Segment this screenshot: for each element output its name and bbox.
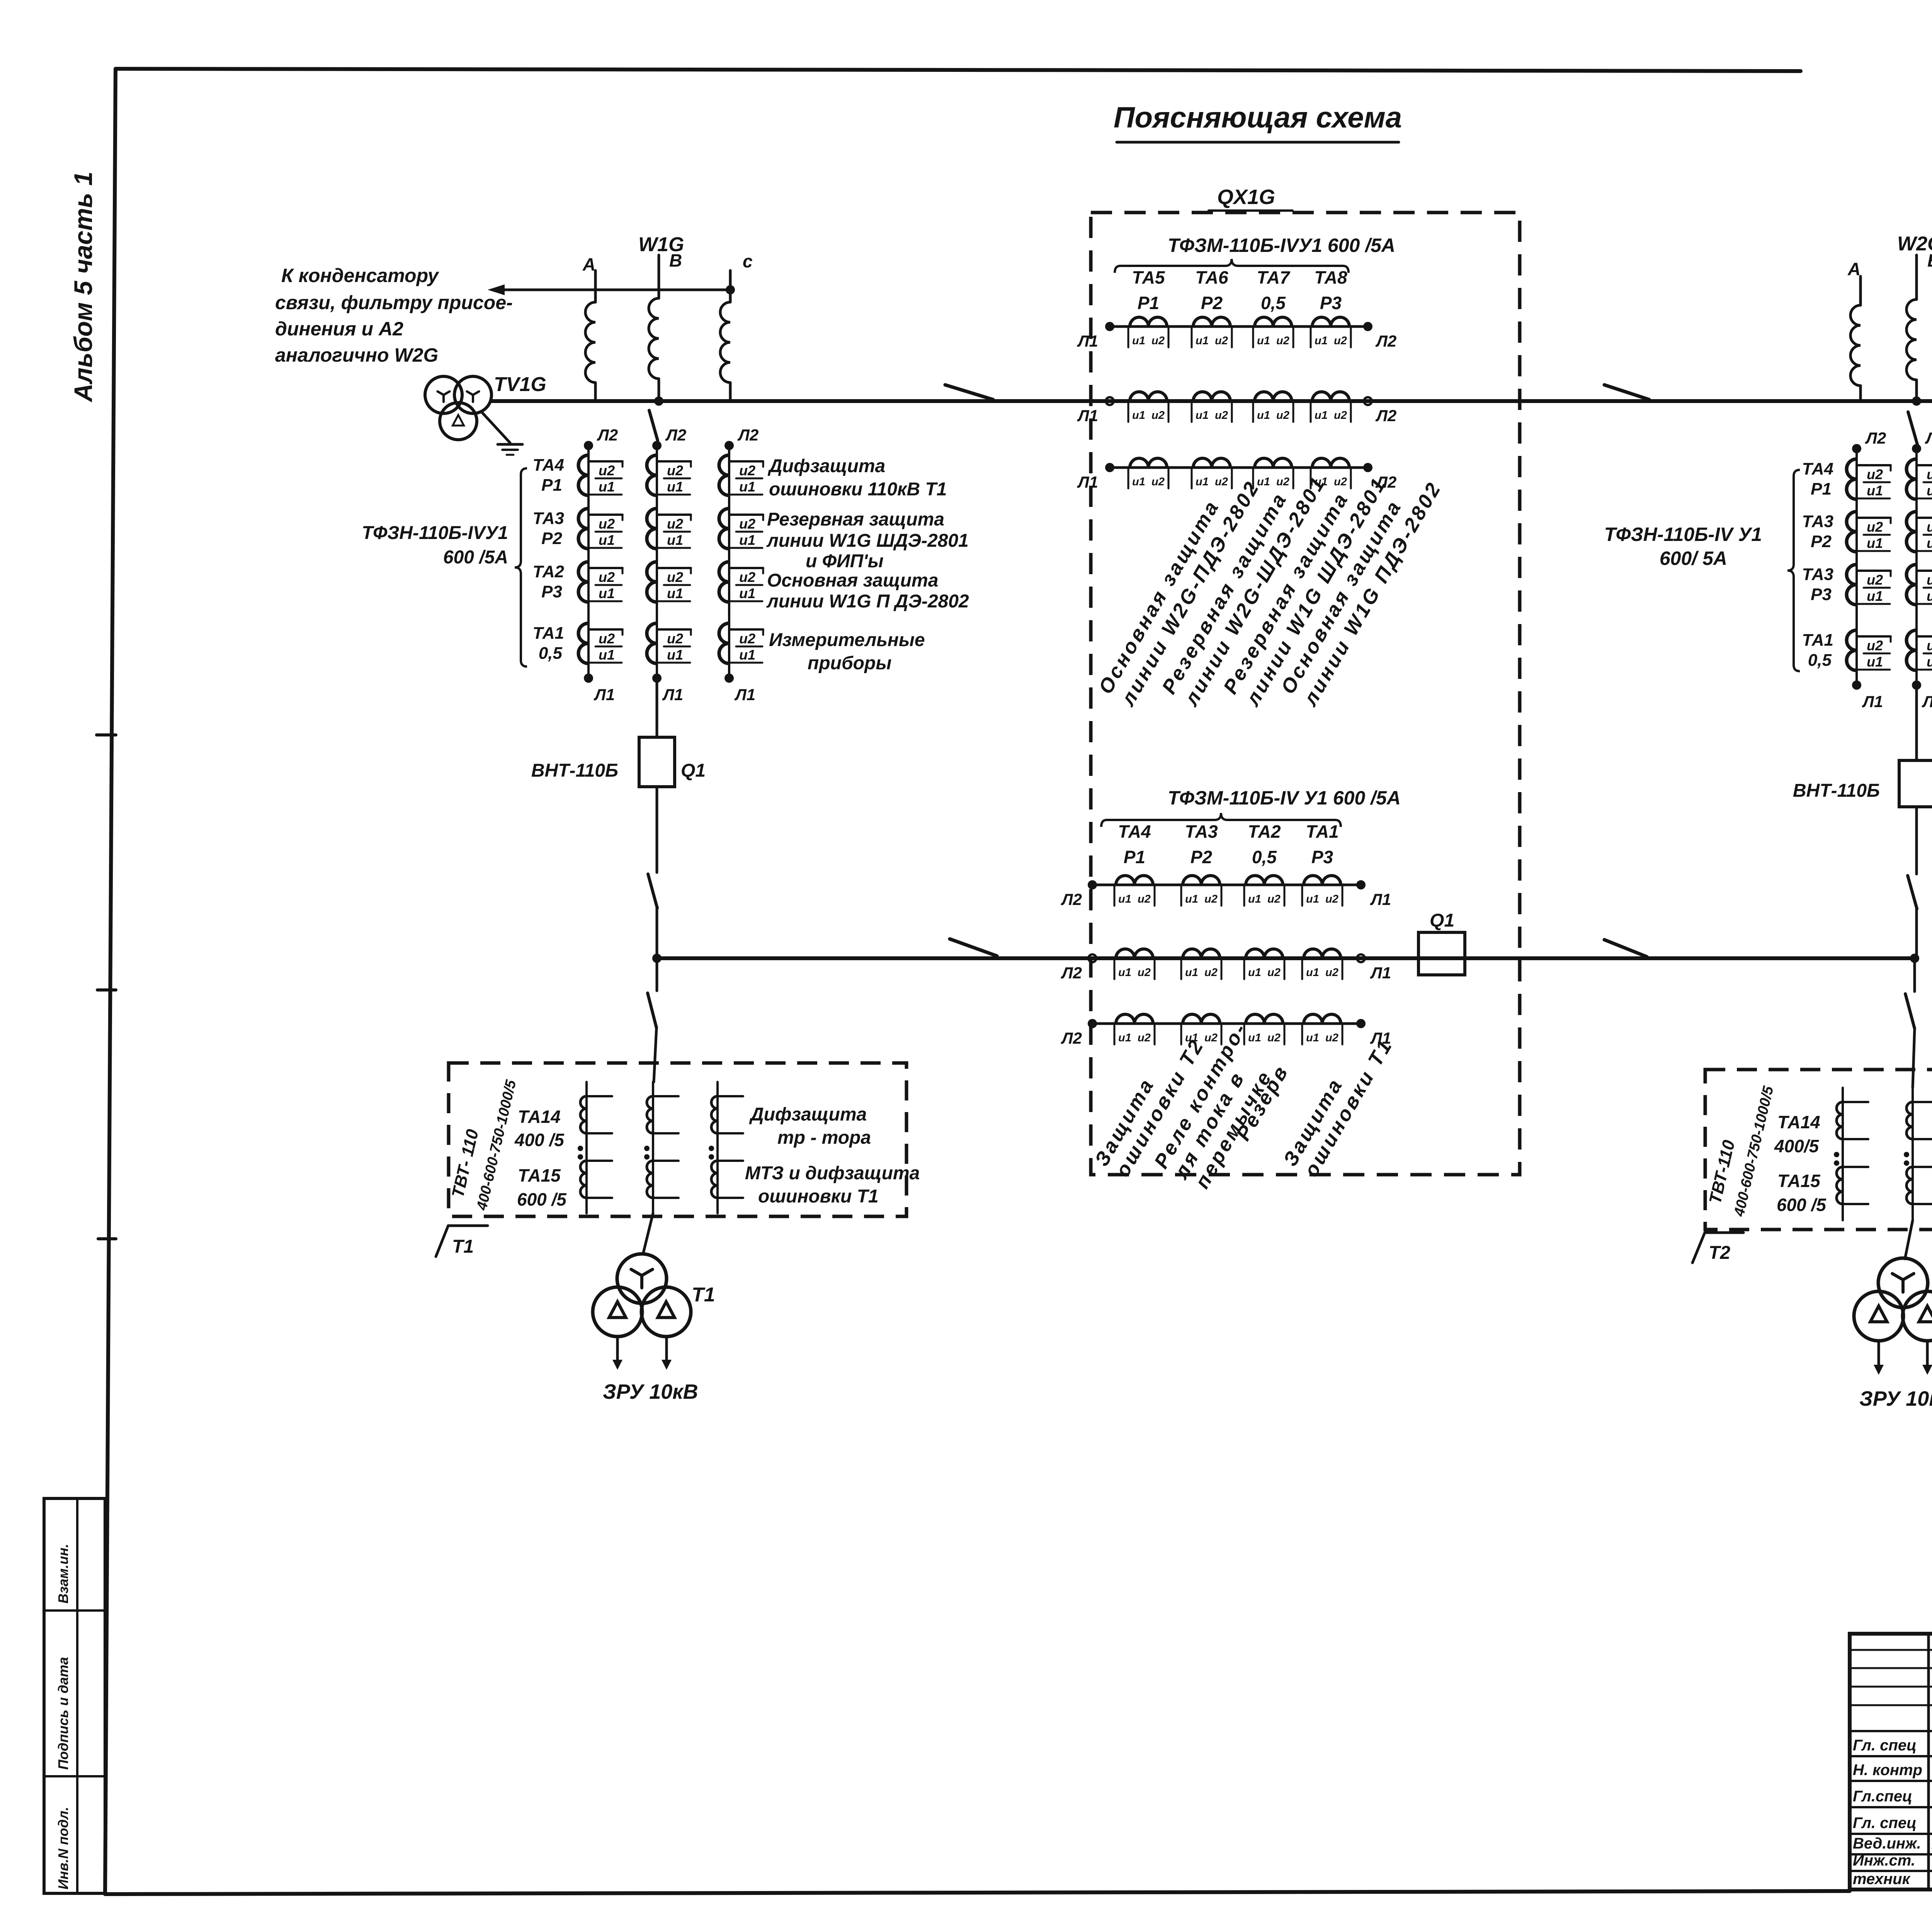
svg-text:и2: и2 [599,463,615,478]
svg-text:и1: и1 [1248,893,1261,905]
svg-text:и1: и1 [1118,966,1131,979]
svg-text:и1: и1 [1118,1032,1131,1044]
svg-text:Р3: Р3 [1811,585,1832,604]
disconnector below bus2 right [1905,994,1915,1029]
svg-text:ТА5: ТА5 [1132,267,1165,287]
svg-text:линии W1G П ДЭ-2802: линии W1G П ДЭ-2802 [766,591,969,612]
svg-text:и1: и1 [1196,409,1209,422]
svg-text:и2: и2 [1334,335,1347,347]
note to coupling capacitor [275,265,513,366]
disconnector above bus2 right [1908,876,1917,909]
T2 output arrows [1874,1342,1932,1375]
svg-text:и1: и1 [667,647,683,663]
reactor coil A [585,302,595,383]
svg-text:Взам.ин.: Взам.ин. [55,1544,71,1604]
svg-text:и2: и2 [1867,519,1883,535]
svg-text:Q1: Q1 [1430,910,1454,931]
svg-text:с: с [743,251,753,271]
svg-text:и2: и2 [1138,966,1151,979]
svg-text:и1: и1 [599,647,615,663]
svg-text:и2: и2 [599,516,615,532]
svg-text:и2: и2 [1215,335,1228,347]
CT windings TA14 TA15 T1 [578,1082,743,1213]
svg-text:ТА3: ТА3 [1802,565,1833,584]
svg-text:тр - тора: тр - тора [777,1128,871,1148]
svg-text:ВНТ-110Б: ВНТ-110Б [531,760,618,781]
svg-text:0,5: 0,5 [1261,293,1286,313]
svg-text:ТФЗМ-110Б-ƖV У1 600 /5А: ТФЗМ-110Б-ƖV У1 600 /5А [1168,787,1401,809]
svg-text:связи, фильтру присое-: связи, фильтру присое- [275,292,513,313]
label W2G [1897,233,1932,255]
svg-text:ТА1: ТА1 [533,624,564,643]
svg-text:0,5: 0,5 [1808,651,1832,670]
svg-text:и1: и1 [1927,654,1932,670]
svg-text:Т1: Т1 [452,1236,474,1257]
svg-text:Р1: Р1 [1124,847,1145,867]
label ZRU 10kV T1 [603,1380,698,1403]
wire to bus2 right [1915,909,1918,958]
wire to bus2 left [656,908,658,958]
svg-text:ТА15: ТА15 [518,1165,561,1185]
svg-text:QX1G: QX1G [1217,185,1275,209]
svg-text:и1: и1 [1196,476,1209,488]
svg-text:Измерительные: Измерительные [769,630,925,650]
label reserve protection W1G [766,509,969,571]
svg-text:и2: и2 [1267,1032,1281,1044]
svg-text:Л2: Л2 [1061,890,1082,908]
label TVT-110 T2 [1706,1084,1777,1218]
label TFZN-110B right [1604,524,1762,569]
svg-text:Л1: Л1 [1922,692,1932,711]
phase label B [669,250,682,270]
svg-text:и2: и2 [1276,409,1289,422]
label main protection W1G [766,570,969,612]
svg-text:и2: и2 [739,631,755,646]
svg-text:ЗРУ 10кВ: ЗРУ 10кВ [1859,1387,1932,1410]
label TA15 T1 [517,1165,567,1209]
wire L1 to breaker right [1915,685,1918,760]
svg-text:600/ 5А: 600/ 5А [1660,548,1727,569]
svg-text:Р2: Р2 [541,529,562,548]
title block names [1853,1736,1932,1888]
svg-text:Р3: Р3 [1311,847,1333,867]
svg-text:и2: и2 [667,463,683,478]
svg-text:и2: и2 [1215,409,1228,422]
svg-text:и1: и1 [1867,588,1883,604]
svg-text:Гл. спец: Гл. спец [1853,1737,1917,1754]
svg-text:Основная защита: Основная защита [767,570,938,591]
phase label A [582,254,595,274]
node bus2 left [652,954,662,963]
label rotated lower Защита ошиновки Т2 [1090,1034,1209,1181]
svg-text:600 /5: 600 /5 [1777,1195,1827,1215]
phase wire A W2G [1859,276,1862,305]
node L1 left group [584,673,755,704]
svg-text:и2: и2 [1325,966,1338,979]
svg-text:ТА2: ТА2 [533,562,565,581]
phase wire A [594,270,597,302]
svg-text:и2: и2 [1204,893,1218,905]
ground TV1G [498,444,522,455]
svg-text:и1: и1 [1185,966,1198,979]
svg-text:ТА4: ТА4 [1118,821,1151,842]
phase wire B [658,255,660,298]
svg-text:К конденсатору: К конденсатору [281,265,439,286]
CT row 3 lower [1061,1014,1391,1047]
svg-text:и1: и1 [1132,335,1145,347]
breaker Q1 tie [1418,910,1465,975]
svg-text:А: А [582,254,595,274]
reactor coil C [720,302,730,383]
label rotated Основная защита 2972 [1094,476,1264,710]
svg-text:400/5: 400/5 [1774,1136,1820,1156]
svg-text:Л1: Л1 [662,685,683,704]
svg-text:Т1: Т1 [692,1284,715,1306]
bus lower [657,956,1913,960]
svg-text:и2: и2 [1151,409,1165,422]
svg-text:и1: и1 [739,532,755,548]
album note [69,172,97,403]
labels TA5-TA8 [1132,267,1347,313]
T1 output arrows [612,1337,672,1370]
T2 CT dashed box [1705,1070,1932,1230]
svg-text:аналогично W2G: аналогично W2G [275,344,438,366]
svg-text:и1: и1 [1257,335,1270,347]
svg-text:В: В [1927,250,1932,270]
svg-text:Л2: Л2 [1061,1029,1082,1047]
svg-text:и2: и2 [1215,476,1228,488]
CT row 1 upper [1077,317,1396,350]
svg-text:ТА3: ТА3 [1185,821,1218,842]
svg-text:и2: и2 [1927,572,1932,588]
svg-text:и2: и2 [1867,572,1883,588]
svg-text:W2G: W2G [1897,233,1932,255]
disconnector bus2 left [950,939,997,956]
svg-text:и1: и1 [1927,483,1932,498]
svg-text:и2: и2 [599,631,615,646]
svg-text:и1: и1 [1867,483,1883,498]
label MTZ T1 [745,1163,920,1207]
svg-text:и1: и1 [1315,335,1328,347]
svg-text:Q1: Q1 [681,760,706,781]
reactor coil B [649,298,659,379]
flag T1 [436,1226,488,1257]
phase label C [743,251,753,271]
svg-text:и1: и1 [599,585,615,601]
svg-text:Р3: Р3 [1320,293,1342,313]
svg-text:Т2: Т2 [1709,1243,1730,1263]
current transformer ТА4 left [533,455,763,495]
svg-text:ошиновки Т1: ошиновки Т1 [758,1186,879,1207]
wire below breaker left [656,787,658,872]
svg-text:ошиновки 110кВ Т1: ошиновки 110кВ Т1 [769,479,947,500]
label ZRU 10kV T2 [1859,1387,1932,1410]
svg-text:и1: и1 [667,585,683,601]
disconnector bus1 left [945,385,993,400]
disconnector bus1 right [1604,385,1649,400]
current transformer ТА1 right 1683 [1802,630,1932,670]
border frame bottom [105,1891,1850,1894]
svg-text:и2: и2 [739,569,755,585]
svg-text:ТА14: ТА14 [1777,1112,1820,1132]
svg-text:и2: и2 [1138,893,1151,905]
brace TFZN left [515,468,527,667]
wire to T2 box [1913,1029,1915,1088]
svg-text:В: В [669,250,682,270]
current transformer ТА2 left [533,562,763,602]
svg-text:Р3: Р3 [541,582,562,601]
svg-text:Р1: Р1 [1138,293,1159,313]
wire C to bus [729,383,732,401]
svg-text:Л2: Л2 [1375,406,1396,425]
svg-text:TV1G: TV1G [494,373,546,396]
svg-text:и1: и1 [1248,1032,1261,1044]
label W1G [638,233,684,256]
brace TFZM upper [1115,259,1349,273]
border tick marks [97,735,116,1239]
disconnector below bus2 left [648,993,656,1028]
label rotated Резервная защита 3136 [1158,472,1330,710]
CT column wires left group [588,446,729,678]
svg-text:600 /5: 600 /5 [517,1189,567,1209]
svg-text:и1: и1 [1118,893,1131,905]
svg-text:ТА6: ТА6 [1195,267,1228,287]
CT row 2 lower on bus [1061,949,1391,982]
wire A to bus W2G [1859,386,1862,401]
svg-text:линии W1G ШДЭ-2801: линии W1G ШДЭ-2801 [766,531,969,551]
svg-text:Л2: Л2 [1865,429,1886,447]
wire B to bus W2G [1915,380,1918,401]
label measuring instruments left [769,630,925,673]
svg-text:Р1: Р1 [1811,480,1832,498]
svg-text:Р1: Р1 [541,476,562,495]
svg-text:Л1: Л1 [1077,332,1098,350]
disconnector above bus2 left [648,874,657,908]
svg-text:и1: и1 [1196,335,1209,347]
svg-text:ТА3: ТА3 [533,509,564,528]
current transformer ТА4 right 1240 [1802,459,1932,499]
CT windings TA14 TA15 T2 [1834,1088,1932,1220]
svg-text:Н. контр: Н. контр [1853,1762,1922,1779]
disconnector below bus W2G [1908,412,1917,444]
svg-text:и1: и1 [1132,476,1145,488]
arrow wire to W2G note [488,284,735,295]
svg-text:и2: и2 [1138,1032,1151,1044]
current transformer ТА3 right 1376 [1802,512,1932,552]
svg-text:и2: и2 [599,569,615,585]
svg-text:и2: и2 [667,569,683,585]
svg-text:Альбом 5 часть 1: Альбом 5 часть 1 [69,172,97,403]
svg-text:и1: и1 [599,532,615,548]
breaker Q1 left [531,737,706,787]
svg-text:и2: и2 [667,516,683,532]
wire T2 box to transformer [1905,1220,1913,1259]
label rotated lower Защита ошиновки Т1 [1279,1034,1397,1181]
transformer T1 [593,1254,715,1337]
label TFZM lower [1168,787,1401,809]
wire below bus2 right [1913,958,1916,992]
svg-text:и1: и1 [1927,535,1932,551]
label TVT-110 T1 [448,1078,519,1212]
voltage transformer TV1G [425,373,546,440]
border frame top [116,69,1801,71]
svg-text:400 /5: 400 /5 [514,1130,565,1150]
labels TA4-TA1 lower [1118,821,1338,867]
drawing title [1114,101,1402,142]
svg-text:и1: и1 [1306,893,1319,905]
svg-text:техник: техник [1853,1871,1911,1888]
svg-text:и1: и1 [1867,654,1883,670]
svg-text:ТА15: ТА15 [1777,1171,1821,1191]
svg-text:0,5: 0,5 [1252,847,1277,867]
svg-text:ТА8: ТА8 [1314,267,1347,287]
border frame left [105,69,116,1894]
svg-text:и2: и2 [1151,335,1165,347]
node B2 [1912,396,1921,406]
svg-text:и2: и2 [1927,466,1932,482]
svg-text:и2: и2 [1204,966,1218,979]
svg-text:ТА3: ТА3 [1802,512,1833,531]
svg-text:0,5: 0,5 [539,644,563,663]
svg-text:А: А [1847,259,1861,279]
label QX1G [1209,185,1293,211]
svg-text:и2: и2 [1267,966,1281,979]
disconnector bus2 right [1604,940,1647,957]
svg-text:и2: и2 [667,631,683,646]
svg-text:и2: и2 [1334,476,1347,488]
svg-text:и1: и1 [599,479,615,495]
svg-text:Поясняющая схема: Поясняющая схема [1114,101,1402,134]
current transformer ТА1 left [533,623,763,663]
svg-text:Л2: Л2 [1375,332,1396,350]
cabinet QX1G dashed box [1091,213,1520,1175]
svg-text:Вед.инж.: Вед.инж. [1853,1835,1921,1852]
node L1 right group [1852,680,1932,711]
label rotated lower Резерв [1232,1061,1293,1145]
svg-text:ТФЗМ-110Б-ƖVУ1 600 /5А: ТФЗМ-110Б-ƖVУ1 600 /5А [1168,235,1395,256]
svg-text:ЗРУ 10кВ: ЗРУ 10кВ [603,1380,698,1403]
svg-text:ТФЗН-110Б-ƖV У1: ТФЗН-110Б-ƖV У1 [1604,524,1762,545]
T1 CT dashed box [449,1063,906,1216]
disconnector below bus W1G [649,410,658,440]
label TA14 T1 [514,1107,565,1150]
wire B to bus [658,379,660,401]
svg-text:Л1: Л1 [594,685,615,704]
wire A to bus [594,383,597,401]
svg-text:и1: и1 [1248,966,1261,979]
transformer T2 [1854,1258,1932,1341]
svg-text:и1: и1 [1315,409,1328,422]
svg-text:ТА7: ТА7 [1257,267,1291,287]
wire L1 to breaker left [656,678,658,737]
svg-text:и2: и2 [1927,519,1932,535]
svg-text:МТЗ и дифзащита: МТЗ и дифзащита [745,1163,920,1184]
svg-text:Л2: Л2 [665,426,686,444]
brace TFZM lower [1101,813,1341,827]
label diff protection T1 [767,456,947,500]
label rotated Резервная защита 3295 [1219,473,1391,711]
label rotated lower Реле контроля тока в перемычке [1150,1018,1277,1192]
left stamp column [44,1498,105,1893]
svg-text:Резервная защита: Резервная защита [767,509,944,530]
svg-text:и2: и2 [1267,893,1281,905]
svg-text:Л1: Л1 [734,685,755,704]
CT row 1 lower [1061,876,1391,908]
phase label B2 [1927,250,1932,270]
node B1 [654,396,663,406]
phase wire C [729,270,732,302]
svg-text:и1: и1 [739,647,755,663]
svg-text:и1: и1 [1927,588,1932,604]
svg-text:Р2: Р2 [1811,532,1832,551]
label TFZN-110B left [362,523,508,568]
svg-text:и2: и2 [1204,1032,1218,1044]
svg-text:и2: и2 [1334,409,1347,422]
svg-text:Л1: Л1 [1370,964,1391,982]
wire to T1 box [654,1028,656,1082]
svg-text:и2: и2 [1151,476,1165,488]
svg-text:и1: и1 [1306,966,1319,979]
svg-text:ВНТ-110Б: ВНТ-110Б [1793,781,1880,801]
bus W1G [492,399,1932,403]
svg-text:Л1: Л1 [1077,473,1098,491]
label diff protection transformer T1 [749,1104,871,1148]
svg-text:Л2: Л2 [737,426,759,444]
svg-text:Л2: Л2 [597,426,618,444]
svg-text:и1: и1 [739,585,755,601]
svg-text:Л2: Л2 [1061,964,1082,982]
current transformer ТА3 left [533,509,763,549]
svg-text:ТА4: ТА4 [1802,459,1833,478]
svg-text:Гл.спец: Гл.спец [1853,1788,1912,1805]
title block left columns [1850,1634,1932,1889]
svg-text:ТА4: ТА4 [533,456,564,474]
svg-text:приборы: приборы [808,653,891,673]
svg-text:и1: и1 [1132,409,1145,422]
svg-text:и1: и1 [667,479,683,495]
svg-text:и1: и1 [667,532,683,548]
svg-text:и2: и2 [1867,638,1883,653]
svg-text:и2: и2 [1927,638,1932,653]
title block outline [1850,1634,1932,1889]
svg-text:ТА1: ТА1 [1802,631,1833,650]
svg-text:Р2: Р2 [1190,847,1213,867]
phase label A2 [1847,259,1861,279]
phase wire B W2G [1915,255,1918,299]
svg-text:и1: и1 [739,479,755,495]
node bus2 right [1910,954,1919,963]
svg-text:и1: и1 [1185,893,1198,905]
svg-text:Л1: Л1 [1370,890,1391,908]
svg-text:Л1: Л1 [1862,692,1883,711]
svg-text:и2: и2 [1325,1032,1338,1044]
CT column wires right group [1857,449,1932,685]
svg-text:и1: и1 [1306,1032,1319,1044]
svg-text:Л1: Л1 [1077,406,1098,425]
svg-text:и2: и2 [1325,893,1338,905]
svg-text:и ФИП'ы: и ФИП'ы [806,551,884,571]
reactor coil B W2G [1906,299,1917,380]
svg-text:Л2: Л2 [1925,429,1932,447]
label rotated Основная защита 3444 [1277,478,1446,711]
svg-text:и2: и2 [739,516,755,532]
svg-text:Подпись и дата: Подпись и дата [55,1657,71,1770]
flag T2 [1692,1233,1743,1263]
CT row 2 upper on bus [1077,392,1396,425]
svg-text:Дифзащита: Дифзащита [749,1104,867,1125]
TV1G ground lead [482,413,510,443]
svg-text:Инв.N подл.: Инв.N подл. [55,1807,71,1889]
